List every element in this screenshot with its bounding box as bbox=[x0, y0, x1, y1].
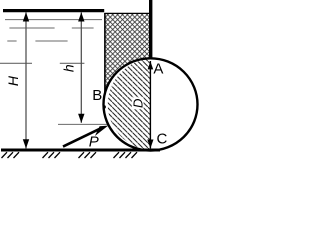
diameter top arrowhead at A bbox=[148, 61, 154, 69]
svg-text:h: h bbox=[60, 64, 76, 72]
svg-text:P: P bbox=[89, 133, 99, 150]
svg-text:C: C bbox=[157, 131, 168, 148]
ground hatch group 2 bbox=[43, 152, 61, 158]
dimension H top arrowhead bbox=[23, 12, 29, 21]
water dashes row 3 bbox=[7, 40, 67, 42]
diameter D dimension line A-C bbox=[149, 61, 151, 148]
wall top edge bbox=[104, 12, 149, 14]
dimension h line bbox=[80, 12, 82, 122]
dimension h bottom arrowhead bbox=[78, 114, 84, 123]
force P arrow shaft bbox=[63, 129, 100, 147]
top water surface thick line bbox=[3, 9, 104, 12]
dimension H line bbox=[25, 12, 27, 148]
white halo for label D bbox=[132, 97, 144, 109]
svg-text:B: B bbox=[92, 87, 102, 104]
ground hatch group 3 bbox=[79, 152, 97, 158]
wall right edge thick line bbox=[149, 0, 152, 59]
cylinder outline bbox=[104, 58, 198, 150]
node B contact dot bbox=[103, 105, 106, 108]
ground line bbox=[1, 149, 160, 152]
cylinder body (white fill) bbox=[104, 58, 198, 150]
ground hatch group 1 bbox=[2, 152, 20, 158]
dimension h top arrowhead bbox=[78, 12, 84, 21]
svg-text:H: H bbox=[5, 75, 21, 86]
level line at bottom of h dimension bbox=[58, 123, 107, 125]
svg-text:D: D bbox=[130, 99, 145, 108]
cylinder left-half hatch bbox=[108, 59, 151, 151]
water dashes row 4 bbox=[0, 62, 84, 64]
dimension H bottom arrowhead bbox=[23, 139, 29, 148]
wall (cross-hatched masonry above cylinder) bbox=[105, 13, 149, 93]
ground hatch group 4 bbox=[114, 152, 138, 158]
force P arrowhead bbox=[95, 126, 108, 136]
wall left edge bbox=[104, 13, 106, 95]
svg-text:A: A bbox=[153, 60, 163, 77]
water dashes row 2 bbox=[9, 27, 93, 29]
diameter bottom arrowhead at C bbox=[147, 140, 153, 149]
water surface line row 1 bbox=[5, 19, 102, 21]
